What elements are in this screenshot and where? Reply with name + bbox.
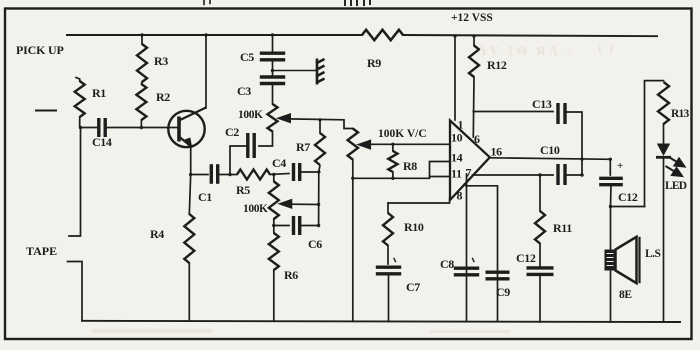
wire ground rail (bottom) <box>82 321 680 322</box>
wire <box>345 0 370 5</box>
wire collector to rail <box>205 35 207 108</box>
wire pin6 node to C13 <box>473 111 553 113</box>
svg-text:R10: R10 <box>404 220 424 234</box>
capacitor C14 <box>99 118 105 137</box>
wire speaker node to LED riser <box>611 206 645 208</box>
capacitor C2 <box>248 133 254 158</box>
wire C1 to R5 <box>218 174 237 176</box>
svg-text:C10: C10 <box>540 143 560 157</box>
capacitor C1 <box>211 164 217 184</box>
svg-text:R2: R2 <box>156 90 170 104</box>
svg-text:C2: C2 <box>225 125 239 139</box>
wire R7 top stub <box>319 120 321 133</box>
svg-text:11: 11 <box>451 167 462 181</box>
wire C6 right to node X <box>301 225 319 227</box>
wire LED to ground rail <box>663 159 665 322</box>
svg-text:14: 14 <box>451 151 463 165</box>
svg-text:R12: R12 <box>487 58 507 72</box>
wire to R4 <box>189 175 190 215</box>
svg-text:R5: R5 <box>236 183 250 197</box>
node X vertical <box>319 165 320 226</box>
wire tape lower terminal <box>68 262 83 321</box>
resistor R9 <box>362 30 403 40</box>
svg-text:+12 VSS: +12 VSS <box>451 12 493 24</box>
resistor R2 <box>136 84 146 120</box>
svg-text:100K: 100K <box>243 203 268 215</box>
wire C10 node to R11 <box>539 175 541 211</box>
wire LED riser <box>645 81 664 207</box>
wire VR3 top stub <box>273 175 275 182</box>
capacitor C7 <box>376 267 401 274</box>
svg-text:R3: R3 <box>154 54 168 68</box>
resistor R1 <box>75 81 85 117</box>
wiper arrow VR3 <box>279 199 292 208</box>
capacitor C12 bottom <box>527 268 554 275</box>
wire R4 to ground rail <box>188 263 190 321</box>
wire pick-up stub <box>36 110 56 112</box>
wire VR2 wiper to op-amp pin10 <box>370 143 451 145</box>
wire +12V rail left of R9 <box>67 34 362 36</box>
wire pin 7 line to C8 <box>466 174 468 322</box>
wire R3-R2 junction <box>140 82 143 84</box>
wire rail to pin 1 <box>454 36 456 120</box>
potentiometer VR1 100K <box>268 104 278 132</box>
speaker LS <box>605 237 640 283</box>
wire C10 right to output node <box>566 174 582 176</box>
wire C5-C3 link <box>272 60 274 75</box>
svg-text:R1: R1 <box>92 86 106 100</box>
ground (chassis) <box>316 59 325 85</box>
LED light arrows <box>666 157 685 177</box>
svg-text:8E: 8E <box>619 289 632 301</box>
svg-text:+: + <box>617 160 623 172</box>
svg-text:C3: C3 <box>237 84 251 98</box>
resistor R8 <box>388 151 397 172</box>
wire R2 to base wire <box>140 120 142 128</box>
wire rail to R3 <box>141 35 143 44</box>
resistor R12 <box>469 46 479 78</box>
potentiometer VR2 100K V/C <box>348 129 358 160</box>
wire emitter down <box>190 147 192 175</box>
capacitor C10 <box>558 164 565 185</box>
svg-text:C13: C13 <box>532 97 552 111</box>
svg-text:R8: R8 <box>403 159 417 173</box>
svg-text:C12: C12 <box>618 190 638 204</box>
svg-text:10: 10 <box>451 131 463 145</box>
wire C12 to speaker node <box>610 185 613 207</box>
wire pin 8 to R10 <box>388 199 450 203</box>
wire op-amp output <box>490 158 611 160</box>
wire C7 to ground rail <box>388 274 390 322</box>
wire R8 top stub <box>392 144 394 151</box>
wire emitter node to C1 <box>191 174 208 176</box>
wire VR1 bottom to C2 <box>259 132 273 147</box>
capacitor C5 <box>260 53 285 60</box>
wire C8 tick <box>473 259 475 262</box>
svg-text:8: 8 <box>457 189 463 203</box>
resistor R7 <box>315 133 325 165</box>
capacitor C9 <box>486 272 510 279</box>
wire VR3 bottom / C6 left <box>274 219 289 233</box>
wire R12 to pin 6 <box>472 77 475 137</box>
wire C14 to base (R2 junction) <box>108 127 178 129</box>
svg-text:100K: 100K <box>238 109 263 121</box>
svg-text:LED: LED <box>665 180 687 192</box>
wire R11 to C12 <box>539 244 541 267</box>
svg-text:( ): ( ) <box>598 41 615 55</box>
svg-text:C6: C6 <box>308 237 322 251</box>
op-amp U1 <box>450 121 490 201</box>
svg-text:PICK UP: PICK UP <box>16 43 64 57</box>
svg-text:R4: R4 <box>150 227 164 241</box>
wire pin 7 to C10 <box>473 174 554 176</box>
wire C12 to ground rail <box>539 275 541 323</box>
resistor R4 <box>184 214 194 263</box>
wire VR1 wiper to VR2 top <box>289 119 353 129</box>
wire pins 11-14 feedback <box>353 162 450 179</box>
wire to chassis ground <box>273 70 317 72</box>
wire R13 to LED <box>663 124 665 144</box>
wire pin 8 edge to C9 <box>466 186 498 322</box>
svg-text:1: 1 <box>458 118 464 132</box>
capacitor C3 <box>260 77 285 84</box>
wire R10 to C7 <box>387 246 389 265</box>
svg-text:TAPE: TAPE <box>26 244 57 258</box>
svg-text:C8: C8 <box>440 257 454 271</box>
wire R8 bottom stub <box>392 172 394 178</box>
svg-text:R9: R9 <box>367 56 381 70</box>
wire rail to C5 <box>272 35 274 51</box>
capacitor C4 <box>294 163 300 181</box>
svg-text:C5: C5 <box>240 50 254 64</box>
svg-text:C1: C1 <box>198 190 212 204</box>
wire VR3 wiper to node X <box>291 203 319 205</box>
svg-text:16: 16 <box>491 145 503 159</box>
svg-text:6: 6 <box>474 132 480 146</box>
svg-text:L.S: L.S <box>645 248 661 260</box>
wire output down to C12 <box>609 159 611 175</box>
capacitor C6 <box>294 216 300 235</box>
wire R1 top lead <box>76 78 80 82</box>
wire to speaker <box>610 207 612 250</box>
svg-text:R11: R11 <box>553 221 572 235</box>
wire +12V rail right of R9 <box>403 35 657 36</box>
wire R6 to ground rail <box>273 270 275 321</box>
resistor R5 <box>237 170 270 180</box>
wire R1 bottom to C14 <box>80 117 97 128</box>
capacitor C12 output <box>599 178 623 184</box>
svg-text:ΔY 1Θ ЯA ○: ΔY 1Θ ЯA ○ <box>478 43 577 58</box>
svg-text:R6: R6 <box>284 268 298 282</box>
wiper arrow VR2 <box>358 140 371 149</box>
svg-text:C12: C12 <box>516 251 536 265</box>
resistor R11 <box>535 211 545 244</box>
wire pin 11 stub <box>430 176 451 178</box>
svg-text:R7: R7 <box>296 140 310 154</box>
wire C7 tick <box>394 259 396 262</box>
wire C13 to output node <box>566 112 582 175</box>
wiper arrow VR1 <box>278 114 291 123</box>
resistor R3 <box>137 44 147 82</box>
transistor Q1 <box>168 108 206 148</box>
wire C4 to node X <box>301 171 319 173</box>
capacitor C13 <box>558 103 565 124</box>
svg-text:R13: R13 <box>671 108 689 120</box>
svg-text:C9: C9 <box>496 285 510 299</box>
resistor R10 <box>383 213 393 246</box>
wire junction down to tape upper <box>69 128 81 237</box>
potentiometer VR3 100K <box>269 182 279 220</box>
LED D1 <box>656 144 671 158</box>
svg-text:C4: C4 <box>272 156 286 170</box>
scan artifacts (faint) <box>478 41 615 58</box>
svg-text:C14: C14 <box>92 135 112 149</box>
svg-text:100K V/C: 100K V/C <box>378 128 427 140</box>
wire C2 to mid wire <box>230 146 248 175</box>
wire C3 to VR1 <box>272 84 274 104</box>
capacitor C8 <box>454 268 479 275</box>
wire VR2 bottom to ground rail <box>352 160 354 322</box>
wire R5 to C4 <box>270 174 289 175</box>
resistor R13 <box>658 82 669 124</box>
resistor R6 <box>269 233 279 270</box>
wire rail to R12 <box>473 36 475 46</box>
wire R10 top stub <box>387 203 389 213</box>
wire <box>204 0 210 5</box>
wire speaker to ground rail <box>610 271 612 323</box>
svg-text:C7: C7 <box>406 280 420 294</box>
